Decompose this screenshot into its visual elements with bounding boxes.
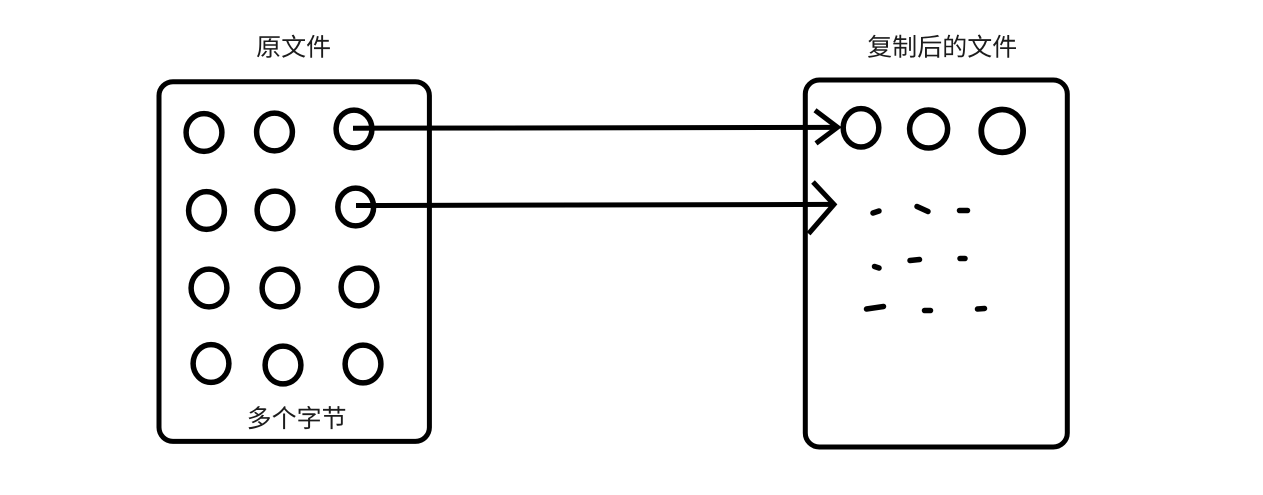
byte circle row2 c3 (338, 188, 374, 226)
byte circle row3 c3 (341, 268, 377, 306)
byte circle row1 c2 (257, 113, 293, 151)
dash row2 b (910, 260, 920, 261)
dash row3 c (978, 306, 985, 312)
byte circle row3 c1 (191, 269, 227, 307)
right file box (805, 80, 1067, 447)
copied circle c3 (981, 109, 1023, 152)
byte circle row4 c1 (193, 345, 229, 383)
byte circle row4 c3 (345, 345, 381, 383)
label: 复制后的文件 (copied file) (868, 35, 1016, 58)
copied circle c1 (843, 109, 879, 147)
dash row1 c (960, 208, 968, 214)
arrow 2 shaft (356, 204, 834, 205)
arrow 1 shaft (353, 125, 837, 131)
arrow 2 head (809, 182, 834, 234)
byte circle row4 c2 (265, 346, 301, 384)
byte circle row1 c1 (186, 114, 222, 152)
label: 原文件 (original file) (257, 35, 330, 58)
dash row1 a (873, 211, 879, 213)
dash row2 a (875, 267, 880, 269)
copied circle c2 (910, 110, 948, 148)
left file box (159, 82, 429, 442)
label: 多个字节 (multiple bytes) (249, 406, 346, 429)
dash row3 b (925, 308, 931, 314)
dash row2 c (960, 256, 965, 262)
arrow 1 head (815, 110, 838, 143)
dash row1 b (917, 207, 928, 212)
dash row3 a (867, 307, 884, 310)
byte circle row3 c2 (262, 269, 298, 307)
byte circle row2 c1 (189, 192, 225, 230)
byte circle row2 c2 (257, 191, 293, 229)
byte circle row1 c3 (336, 110, 372, 148)
